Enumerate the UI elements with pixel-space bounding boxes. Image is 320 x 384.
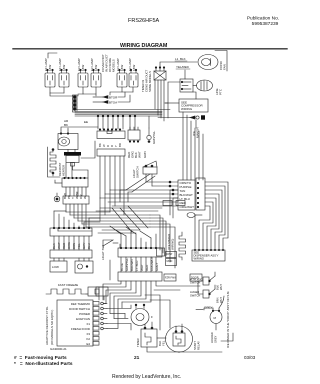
svg-text:BR: BR bbox=[118, 143, 122, 147]
svg-text:GREY: GREY bbox=[214, 335, 218, 343]
svg-text:BRN: BRN bbox=[216, 297, 220, 303]
lamp wiring bbox=[50, 87, 64, 93]
connector box B bbox=[63, 196, 89, 204]
svg-text:* = Non-Illustrated Parts: * = Non-Illustrated Parts bbox=[14, 361, 73, 367]
svg-text:GREY: GREY bbox=[155, 262, 159, 271]
wires under switch rows bbox=[198, 281, 203, 294]
svg-text:03/03: 03/03 bbox=[244, 355, 256, 360]
ice maker motor labels bbox=[210, 332, 218, 343]
diagonals into connector pins bbox=[110, 226, 121, 234]
svg-text:BTOA: BTOA bbox=[109, 101, 117, 105]
svg-text:DISP: DISP bbox=[167, 253, 173, 256]
right corner bracket bbox=[221, 333, 233, 341]
svg-text:ICE MAKER IN THE "CRCW" ASS'Y: ICE MAKER IN THE "CRCW" ASS'Y ON S.M. bbox=[226, 291, 230, 348]
defrost thermostat (bulb) bbox=[54, 196, 60, 202]
bottom connecting wires bbox=[147, 347, 179, 352]
lamp socket 1a bbox=[45, 73, 55, 87]
vertical label ice maker feed bbox=[192, 126, 200, 138]
svg-text:WIRING DIAGRAM: WIRING DIAGRAM bbox=[120, 43, 168, 49]
svg-text:ADAPTIVE DEFROST CTRL: ADAPTIVE DEFROST CTRL bbox=[45, 306, 49, 345]
verticals to wire list connector bbox=[182, 112, 184, 180]
svg-text:WHT: WHT bbox=[140, 264, 144, 271]
ice maker motor bbox=[210, 311, 222, 324]
cold control box bbox=[97, 131, 125, 139]
svg-text:ORG/WHT: ORG/WHT bbox=[180, 205, 195, 209]
wire color list box bbox=[178, 180, 195, 210]
ADC control box bbox=[57, 300, 93, 346]
start relay / compressor ellipse bbox=[166, 326, 193, 352]
svg-text:18W: 18W bbox=[48, 65, 52, 71]
overload protector bbox=[197, 80, 213, 91]
svg-text:HEATER: HEATER bbox=[62, 165, 66, 176]
extra bus wires bbox=[100, 207, 162, 209]
svg-text:5995387239: 5995387239 bbox=[252, 21, 279, 27]
defrost timer box bbox=[154, 71, 166, 80]
svg-text:M: M bbox=[214, 316, 217, 320]
svg-text:BLK: BLK bbox=[216, 285, 220, 290]
svg-text:MODELS: MODELS bbox=[112, 59, 116, 72]
center connector long box 1 bbox=[118, 248, 162, 257]
ice maker note vertical bbox=[226, 291, 230, 348]
inline connector a bbox=[163, 201, 172, 206]
wire L1 BLK to compressor oval bbox=[160, 62, 197, 67]
lamp socket 2a bbox=[78, 73, 88, 87]
lamp labels pair 1 bbox=[44, 54, 136, 72]
svg-text:GRN/YEL: GRN/YEL bbox=[125, 257, 129, 271]
middle distribution bus bbox=[66, 211, 110, 213]
relay box bbox=[180, 79, 193, 92]
label box door bbox=[190, 274, 202, 281]
defrost thermostat block bbox=[64, 152, 81, 156]
svg-text:LOW: LOW bbox=[52, 265, 59, 269]
svg-text:18W: 18W bbox=[62, 65, 66, 71]
svg-text:SWITCH: SWITCH bbox=[136, 166, 140, 178]
lamp socket 1b bbox=[59, 73, 69, 87]
lamp socket 3b bbox=[129, 73, 138, 87]
svg-text:RED: RED bbox=[145, 264, 149, 271]
staircase into box C bbox=[53, 211, 55, 228]
svg-text:SOME MODELS: SOME MODELS bbox=[148, 71, 152, 92]
svg-text:MOD: MOD bbox=[167, 260, 173, 263]
door switch symbol (center) bbox=[143, 161, 157, 186]
inline connector b bbox=[176, 201, 185, 206]
svg-text:FAST FREEZE: FAST FREEZE bbox=[58, 283, 78, 287]
relay box G bbox=[96, 287, 108, 296]
wires below connector B bbox=[65, 204, 67, 212]
pin circles column bbox=[101, 302, 104, 305]
bottom horizontals bbox=[103, 303, 106, 305]
cold control pin labels bbox=[98, 143, 122, 147]
svg-text:LIGHT SW: LIGHT SW bbox=[101, 245, 105, 260]
box LOW bbox=[50, 261, 67, 272]
ADC vertical note bbox=[45, 306, 54, 345]
svg-text:E4: E4 bbox=[86, 342, 90, 346]
see compressor wiring box bbox=[179, 99, 208, 112]
svg-text:GREY: GREY bbox=[204, 306, 213, 310]
center connector long box 2 bbox=[118, 272, 162, 281]
svg-text:G240000-21: G240000-21 bbox=[50, 347, 67, 351]
svg-text:WHT: WHT bbox=[219, 284, 223, 290]
fast freeze switch strip bbox=[46, 289, 86, 294]
svg-text:(ON MODELS SO EQPD.): (ON MODELS SO EQPD.) bbox=[50, 310, 54, 345]
svg-text:WHT: WHT bbox=[138, 151, 142, 158]
svg-text:LT. BLU: LT. BLU bbox=[135, 261, 139, 271]
connector box A bbox=[62, 178, 88, 187]
svg-text:POWER: POWER bbox=[79, 312, 90, 316]
svg-text:ORG/WHT: ORG/WHT bbox=[150, 256, 154, 271]
diagonal harness fan bbox=[126, 174, 150, 190]
svg-text:EE: EE bbox=[84, 120, 88, 124]
svg-text:FRS26HF5A: FRS26HF5A bbox=[128, 18, 160, 24]
svg-text:DOOR SWITCH: DOOR SWITCH bbox=[69, 307, 90, 311]
svg-text:BROWN: BROWN bbox=[130, 260, 134, 272]
svg-text:F: F bbox=[151, 315, 153, 319]
svg-text:W: W bbox=[83, 196, 87, 199]
timer note vertical text bbox=[141, 69, 152, 92]
svg-text:F3: F3 bbox=[87, 332, 91, 336]
svg-text:BTOR: BTOR bbox=[109, 96, 118, 100]
svg-text:FZR FAN: FZR FAN bbox=[165, 277, 176, 280]
dispenser resistor vertical wave bbox=[179, 232, 186, 260]
vertical label column ice wiring bbox=[167, 234, 175, 250]
svg-text:Publication No.: Publication No. bbox=[247, 16, 279, 22]
connector chain vertical bbox=[73, 95, 78, 112]
title rule bbox=[13, 48, 287, 50]
svg-text:DEF THERMO: DEF THERMO bbox=[71, 302, 91, 306]
svg-text:FRESH FOOD: FRESH FOOD bbox=[71, 327, 90, 331]
svg-text:21: 21 bbox=[134, 355, 140, 361]
bracket right of oval bbox=[215, 51, 227, 72]
switch contact b bbox=[93, 101, 103, 103]
switch contact a bbox=[93, 96, 103, 98]
svg-text:EVAP FAN: EVAP FAN bbox=[76, 317, 90, 321]
lamp socket 2b bbox=[91, 73, 101, 87]
svg-text:WIRING): WIRING) bbox=[171, 239, 175, 250]
wires from timer/relay down bbox=[154, 80, 156, 109]
svg-text:YEL: YEL bbox=[162, 340, 166, 346]
svg-text:18W: 18W bbox=[81, 65, 85, 71]
box PTC bbox=[75, 261, 93, 273]
svg-text:FAN: FAN bbox=[223, 64, 227, 70]
svg-text:WIRING: WIRING bbox=[181, 107, 193, 111]
bottom harness staircase bbox=[103, 281, 121, 300]
compartment boundary bbox=[48, 147, 61, 177]
svg-text:YEL/RED: YEL/RED bbox=[176, 65, 190, 69]
nested loop wires bbox=[205, 182, 228, 250]
svg-text:Rendered by LeadVenture, Inc.: Rendered by LeadVenture, Inc. bbox=[112, 374, 181, 380]
svg-text:WIRING: WIRING bbox=[194, 257, 204, 261]
cold control lower connector bbox=[97, 149, 125, 156]
svg-text:PTC: PTC bbox=[219, 88, 223, 95]
connector tall bbox=[196, 178, 205, 210]
inline connector c bbox=[157, 248, 165, 256]
dispenser module boxes bbox=[166, 252, 177, 258]
svg-text:RELAY: RELAY bbox=[197, 341, 201, 350]
footer legend fast-moving bbox=[14, 355, 73, 367]
switch row 1 bbox=[190, 277, 202, 285]
evap fan motor bbox=[58, 134, 78, 150]
connector box C bbox=[50, 228, 92, 236]
svg-text:GRN/YEL: GRN/YEL bbox=[152, 130, 156, 144]
drops from bus to cold control bbox=[97, 116, 99, 129]
label box FZR fan bbox=[164, 274, 176, 281]
timer box bbox=[128, 130, 140, 140]
harness bus wires bbox=[146, 181, 178, 183]
svg-text:HOLDER: HOLDER bbox=[210, 332, 214, 343]
svg-text:K2: K2 bbox=[86, 337, 90, 341]
svg-text:BLUE: BLUE bbox=[120, 263, 124, 271]
defrost heater zigzag bbox=[50, 150, 56, 172]
fuse bbox=[148, 128, 150, 135]
bracket top-left bbox=[48, 53, 57, 58]
svg-text:18W: 18W bbox=[120, 65, 124, 71]
switch row 2 bbox=[190, 290, 200, 298]
main top bus bbox=[75, 109, 170, 111]
condenser fan oval bbox=[198, 55, 218, 70]
svg-text:BK: BK bbox=[64, 123, 68, 127]
svg-text:WTR VLV: WTR VLV bbox=[190, 277, 202, 281]
switch assy box bbox=[192, 250, 225, 261]
connector box D bbox=[50, 250, 92, 258]
svg-text:GRN: GRN bbox=[143, 151, 147, 158]
lamp socket 3a bbox=[117, 73, 127, 87]
small switch oval bbox=[187, 213, 195, 218]
FF fan motor bbox=[131, 309, 149, 326]
svg-text:TIMER: TIMER bbox=[136, 338, 140, 347]
svg-text:L1 BLK: L1 BLK bbox=[175, 57, 186, 61]
diagonal crossing wires bbox=[112, 208, 132, 232]
svg-text:# = Fast-moving Parts: # = Fast-moving Parts bbox=[14, 355, 67, 361]
disconnect symbol bbox=[158, 117, 190, 119]
svg-text:18W: 18W bbox=[94, 65, 98, 71]
svg-text:F1: F1 bbox=[87, 322, 91, 326]
triangle connector symbol bbox=[103, 240, 113, 246]
wires center to bottom bbox=[150, 215, 160, 250]
ADC right edge stubs bbox=[93, 302, 99, 306]
door switch bottom box bbox=[141, 329, 157, 347]
